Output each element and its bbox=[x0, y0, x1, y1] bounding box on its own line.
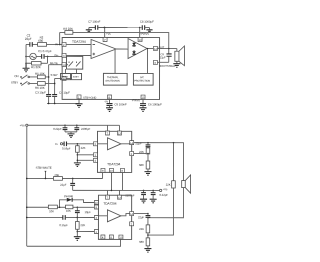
svg-text:2200µF: 2200µF bbox=[81, 127, 91, 131]
capacitor C1 0.47uF bbox=[42, 54, 44, 59]
block THERMAL SHUTDOWN bbox=[103, 73, 127, 85]
ground (left rail / pin1) bbox=[78, 99, 80, 104]
pin 10 bbox=[62, 63, 66, 67]
node: R3 tap on IN- row bbox=[59, 44, 61, 46]
capacitor C14 22uF bbox=[72, 178, 74, 183]
svg-text:20K: 20K bbox=[54, 173, 59, 177]
pin 15 bbox=[141, 95, 145, 99]
svg-text:STBY/MUTE: STBY/MUTE bbox=[36, 166, 52, 170]
ground (U2 feedback) bbox=[144, 172, 151, 176]
svg-text:10µF: 10µF bbox=[85, 210, 92, 214]
wire: OUT1 to speaker bbox=[134, 143, 184, 181]
terminal +Vs (mid) bbox=[160, 189, 162, 191]
resistor R16 680 (U3 feedback) bbox=[146, 238, 150, 246]
wire: OUT to speaker bbox=[157, 48, 176, 50]
pin 1 (U3) bbox=[94, 229, 98, 233]
resistor R9 680 (U2 feedback) bbox=[147, 154, 149, 161]
wire: to thermal shutdown bbox=[114, 49, 116, 73]
capacitor C5 100nF bbox=[107, 104, 113, 106]
svg-text:TDA7294: TDA7294 bbox=[107, 162, 120, 166]
wire: out stub (U3) bbox=[121, 214, 130, 216]
wire: left ground rail bbox=[47, 102, 79, 104]
resistor R13 10K bbox=[66, 205, 73, 209]
svg-text:In: In bbox=[55, 142, 58, 146]
ground (C16) bbox=[150, 199, 157, 203]
wire: S/C block to out bbox=[147, 49, 149, 73]
svg-text:22µF: 22µF bbox=[138, 215, 145, 219]
capacitor C2 22uF bbox=[30, 42, 32, 47]
svg-text:22K: 22K bbox=[80, 223, 85, 227]
wire: pin 13 supply drop bbox=[139, 28, 141, 38]
wire: C2/R2 feedback row to pin 2 bbox=[26, 43, 62, 45]
wire: pin9 row inside bbox=[66, 77, 72, 79]
svg-text:IN-: IN- bbox=[55, 42, 59, 46]
wire: to pin 1 (U3) bbox=[77, 230, 94, 232]
ground (U3 feedback) bbox=[144, 249, 151, 253]
wire: R3 riser bbox=[59, 32, 61, 44]
ground (input bus) bbox=[23, 63, 30, 71]
svg-text:MUTE: MUTE bbox=[62, 76, 69, 79]
op-amp U2 bbox=[107, 138, 121, 150]
pin 14 (U3) bbox=[130, 212, 134, 216]
wire: supply risers to U2 bbox=[108, 125, 120, 131]
svg-text:IN+: IN+ bbox=[54, 53, 59, 57]
svg-text:C4 10µF: C4 10µF bbox=[59, 91, 70, 95]
capacitor C13 22uF (U2 feedback) bbox=[147, 143, 149, 145]
capacitor C9 22uF (bootstrap) bbox=[168, 49, 170, 63]
resistor R15 22K (U3 feedback) bbox=[146, 225, 150, 233]
svg-text:STBY: STBY bbox=[51, 73, 58, 77]
svg-text:C5 100nF: C5 100nF bbox=[114, 102, 127, 106]
wire: U3 in+ row bbox=[66, 216, 95, 218]
svg-text:R3 22K: R3 22K bbox=[63, 27, 73, 31]
capacitor C7 100nF bbox=[89, 26, 96, 28]
source V1 (signal input) bbox=[30, 53, 36, 59]
pin 14 (U2) bbox=[130, 141, 134, 145]
svg-text:-PWVs: -PWVs bbox=[132, 98, 141, 102]
wire: pin2 to op-amp bbox=[66, 43, 91, 45]
pin 6 bbox=[153, 60, 157, 64]
pin 13 (U2) bbox=[117, 131, 121, 135]
wire: pin 8 drop bbox=[109, 99, 111, 104]
svg-text:+PWVs: +PWVs bbox=[140, 32, 150, 36]
IC U2 TDA7294 box bbox=[97, 131, 131, 172]
wire: pin 7 supply drop bbox=[104, 28, 106, 38]
wire: bottom supply rail bbox=[27, 239, 121, 246]
capacitor C17 10uF bbox=[76, 207, 78, 210]
ground (C8) bbox=[145, 28, 150, 30]
wire: mid +Vs rail bbox=[73, 189, 160, 191]
svg-text:+Vs: +Vs bbox=[20, 123, 26, 127]
IC U3 TDA7294 box bbox=[98, 195, 131, 239]
wire: pin3 to op-amp bbox=[66, 54, 91, 56]
block MUTE bbox=[61, 73, 71, 79]
svg-text:680: 680 bbox=[139, 240, 144, 244]
resistor R14 22K (U3 in+) bbox=[76, 217, 78, 221]
capacitor C3 10uF bbox=[46, 95, 51, 97]
pin 3 (U2) bbox=[93, 142, 97, 146]
wire: stby riser / C4 lead bbox=[54, 78, 56, 94]
wire: input row to pin 3 bbox=[67, 143, 94, 145]
svg-text:C8 1000µF: C8 1000µF bbox=[140, 20, 154, 24]
svg-text:10K: 10K bbox=[66, 209, 71, 213]
wire: mute riser / C3 lead bbox=[48, 65, 50, 95]
wire: MUTE row to pin 10 bbox=[49, 64, 62, 66]
capacitor C10 0.1uF bbox=[64, 125, 66, 127]
pin 8 bbox=[108, 95, 112, 99]
capacitor C11 2200uF bbox=[76, 125, 78, 127]
wire: to pin 1 bbox=[77, 154, 93, 156]
ground (C7) bbox=[88, 27, 90, 29]
wire: output stage to pin 14 bbox=[147, 48, 153, 50]
resistor R6 10K bbox=[37, 82, 45, 86]
svg-text:22K: 22K bbox=[139, 150, 144, 154]
svg-text:+Vs: +Vs bbox=[163, 187, 168, 191]
wire: pin10 into block bbox=[66, 64, 68, 66]
block STBY bbox=[72, 73, 82, 79]
ground (speaker) bbox=[173, 64, 180, 68]
pin 3 bbox=[62, 53, 66, 57]
node: R1 tap bbox=[47, 56, 49, 58]
wire: IN+ row to pin 3 bbox=[44, 55, 62, 57]
pin 2 bbox=[62, 42, 66, 46]
wire: stby row bbox=[27, 206, 95, 208]
ground (C6) bbox=[140, 108, 147, 112]
ground (supply caps) bbox=[67, 134, 74, 138]
svg-text:R5 10K: R5 10K bbox=[35, 72, 45, 76]
svg-text:22µF: 22µF bbox=[135, 141, 142, 145]
wire: pin 15 drop bbox=[142, 99, 144, 104]
capacitor C6 1000uF bbox=[140, 104, 146, 106]
svg-text:22µF: 22µF bbox=[25, 37, 32, 41]
speaker LS1 bbox=[176, 49, 178, 52]
resistor R2 680 bbox=[38, 43, 47, 47]
block S/C PROTECTION bbox=[133, 73, 153, 85]
capacitor C8 1000uF bbox=[142, 25, 144, 30]
capacitor C18 0.15uF (U3 in+) bbox=[27, 216, 63, 218]
resistor R12 10K bbox=[48, 205, 57, 209]
pin 1 (U2) bbox=[93, 153, 97, 157]
wire: risers U2 bottom pins bbox=[103, 172, 123, 190]
svg-text:22K: 22K bbox=[81, 146, 86, 150]
output stage with clamp diodes bbox=[128, 39, 147, 59]
svg-text:STBY-GND: STBY-GND bbox=[83, 96, 96, 100]
wire: OUT2 row bbox=[134, 213, 148, 215]
svg-text:BOOTSTRAP: BOOTSTRAP bbox=[159, 64, 175, 68]
diode D1 1N4148 bbox=[60, 200, 95, 208]
pin 7 (U3) bbox=[105, 195, 109, 199]
wire: left supply bus bbox=[26, 126, 28, 246]
svg-text:0.22µF: 0.22µF bbox=[53, 127, 62, 131]
capacitor C4 10uF bbox=[52, 95, 57, 97]
pin 7 (U2) bbox=[105, 131, 109, 135]
svg-text:680: 680 bbox=[139, 163, 144, 167]
ground (C15) bbox=[140, 199, 147, 203]
wire: speaker bottom to OUT2 bbox=[148, 188, 184, 218]
ground (C5) bbox=[106, 108, 113, 112]
capacitor C19 22uF (U3 feedback) bbox=[147, 214, 149, 216]
wire: R1 riser bbox=[47, 56, 49, 63]
svg-text:C1 0.47µF: C1 0.47µF bbox=[38, 49, 52, 53]
wire: out stub bbox=[121, 143, 130, 145]
svg-text:PROTECTION: PROTECTION bbox=[134, 80, 150, 83]
pin 6 (U3) bbox=[130, 222, 134, 226]
wire: pin2 (U2) feedback row bbox=[134, 153, 148, 155]
svg-text:0.15µF: 0.15µF bbox=[59, 223, 68, 227]
svg-text:OUT: OUT bbox=[159, 45, 165, 49]
resistor R5 10K bbox=[37, 75, 45, 79]
wire: to pin 4 bbox=[77, 159, 93, 161]
wire: R5 to mute riser bbox=[45, 76, 48, 78]
resistor R1 22K bbox=[26, 62, 47, 64]
svg-text:R6 10K: R6 10K bbox=[35, 86, 45, 90]
wire: pin 6 bootstrap row bbox=[157, 61, 168, 63]
pin 13 (U3) bbox=[117, 195, 121, 199]
wire: blocks to switch box bbox=[66, 69, 77, 74]
resistor R11 20K bbox=[53, 177, 62, 181]
resistor R7 22K (input bias) bbox=[76, 144, 78, 146]
svg-text:TDA7294: TDA7294 bbox=[103, 202, 116, 206]
op-amp U3 bbox=[107, 210, 121, 222]
svg-text:TDA7294: TDA7294 bbox=[72, 40, 86, 44]
svg-text:MUTE: MUTE bbox=[50, 61, 58, 65]
pin 3 (U3) bbox=[94, 215, 98, 219]
capacitor C15 2200uF bbox=[143, 190, 145, 192]
svg-text:STBY: STBY bbox=[11, 81, 18, 85]
wire: R6 to stby riser bbox=[45, 82, 54, 84]
wire: STBY row to pin 9 bbox=[55, 77, 62, 79]
pins bottom (U3) bbox=[101, 235, 105, 239]
op-amp U1A input stage bbox=[91, 39, 116, 58]
pin 1 bbox=[77, 95, 81, 99]
ground (U3 input) bbox=[74, 237, 81, 241]
svg-text:-Vs: -Vs bbox=[104, 99, 109, 103]
svg-text:C6 1000µF: C6 1000µF bbox=[148, 102, 162, 106]
svg-text:22µF: 22µF bbox=[60, 183, 67, 187]
wire: R3 feedback wire to OUT bbox=[60, 32, 169, 48]
IC U1 TDA7294 box bbox=[62, 37, 159, 99]
pin 2 (U2) bbox=[130, 152, 134, 156]
speaker LS2 bbox=[182, 181, 186, 188]
pins bottom (U2) bbox=[101, 168, 105, 172]
wire: +Vs rail bbox=[98, 26, 142, 28]
wire: mute/stby feed row bbox=[27, 177, 103, 179]
ground (input network) bbox=[74, 163, 81, 167]
capacitor C16 0.22uF bbox=[152, 190, 154, 192]
svg-text:0.56µF: 0.56µF bbox=[62, 146, 71, 150]
svg-text:10K: 10K bbox=[49, 209, 54, 213]
svg-text:0.22µF: 0.22µF bbox=[159, 193, 168, 197]
svg-text:C3 10µF: C3 10µF bbox=[35, 91, 46, 95]
svg-text:STBY: STBY bbox=[73, 76, 80, 79]
wire: op-amp to output stage bbox=[116, 48, 128, 50]
pin 4 (U2) bbox=[93, 158, 97, 162]
resistor R3 22K bbox=[65, 31, 73, 35]
pin 7 bbox=[103, 38, 107, 42]
node: bus/C2 corner bbox=[25, 56, 27, 58]
wire: pin3 stub bbox=[97, 143, 107, 145]
resistor R10 22K (bridge link) bbox=[172, 143, 174, 181]
svg-text:SHUTDOWN: SHUTDOWN bbox=[105, 80, 120, 83]
pin 9 (U3) bbox=[94, 205, 98, 209]
svg-text:22K: 22K bbox=[139, 227, 144, 231]
svg-text:ON: ON bbox=[14, 74, 18, 78]
svg-text:22µF: 22µF bbox=[160, 55, 166, 59]
svg-text:680: 680 bbox=[38, 39, 43, 43]
pin 9 bbox=[62, 76, 66, 80]
mute/stby switch block bbox=[67, 56, 83, 69]
wire: cap pair join bbox=[65, 132, 77, 134]
svg-text:C7 100nF: C7 100nF bbox=[88, 20, 101, 24]
wire: risers U3 top pins bbox=[107, 190, 119, 195]
wire: input ground bus bbox=[25, 44, 27, 63]
capacitor C12 0.56uF (input) bbox=[63, 143, 64, 145]
wire: pin3 stub (U3) bbox=[98, 215, 107, 217]
svg-text:R1 22K: R1 22K bbox=[31, 65, 41, 69]
pin 10 (U3) bbox=[94, 200, 98, 204]
pin 14 bbox=[153, 46, 157, 50]
svg-text:1N4148: 1N4148 bbox=[64, 194, 74, 198]
svg-text:22K: 22K bbox=[166, 183, 171, 187]
svg-text:+Vs: +Vs bbox=[106, 32, 111, 36]
wire: +Vs top rail bbox=[28, 124, 120, 126]
resistor R8 22K (U2 feedback) bbox=[146, 148, 150, 154]
pin 13 bbox=[138, 38, 142, 42]
